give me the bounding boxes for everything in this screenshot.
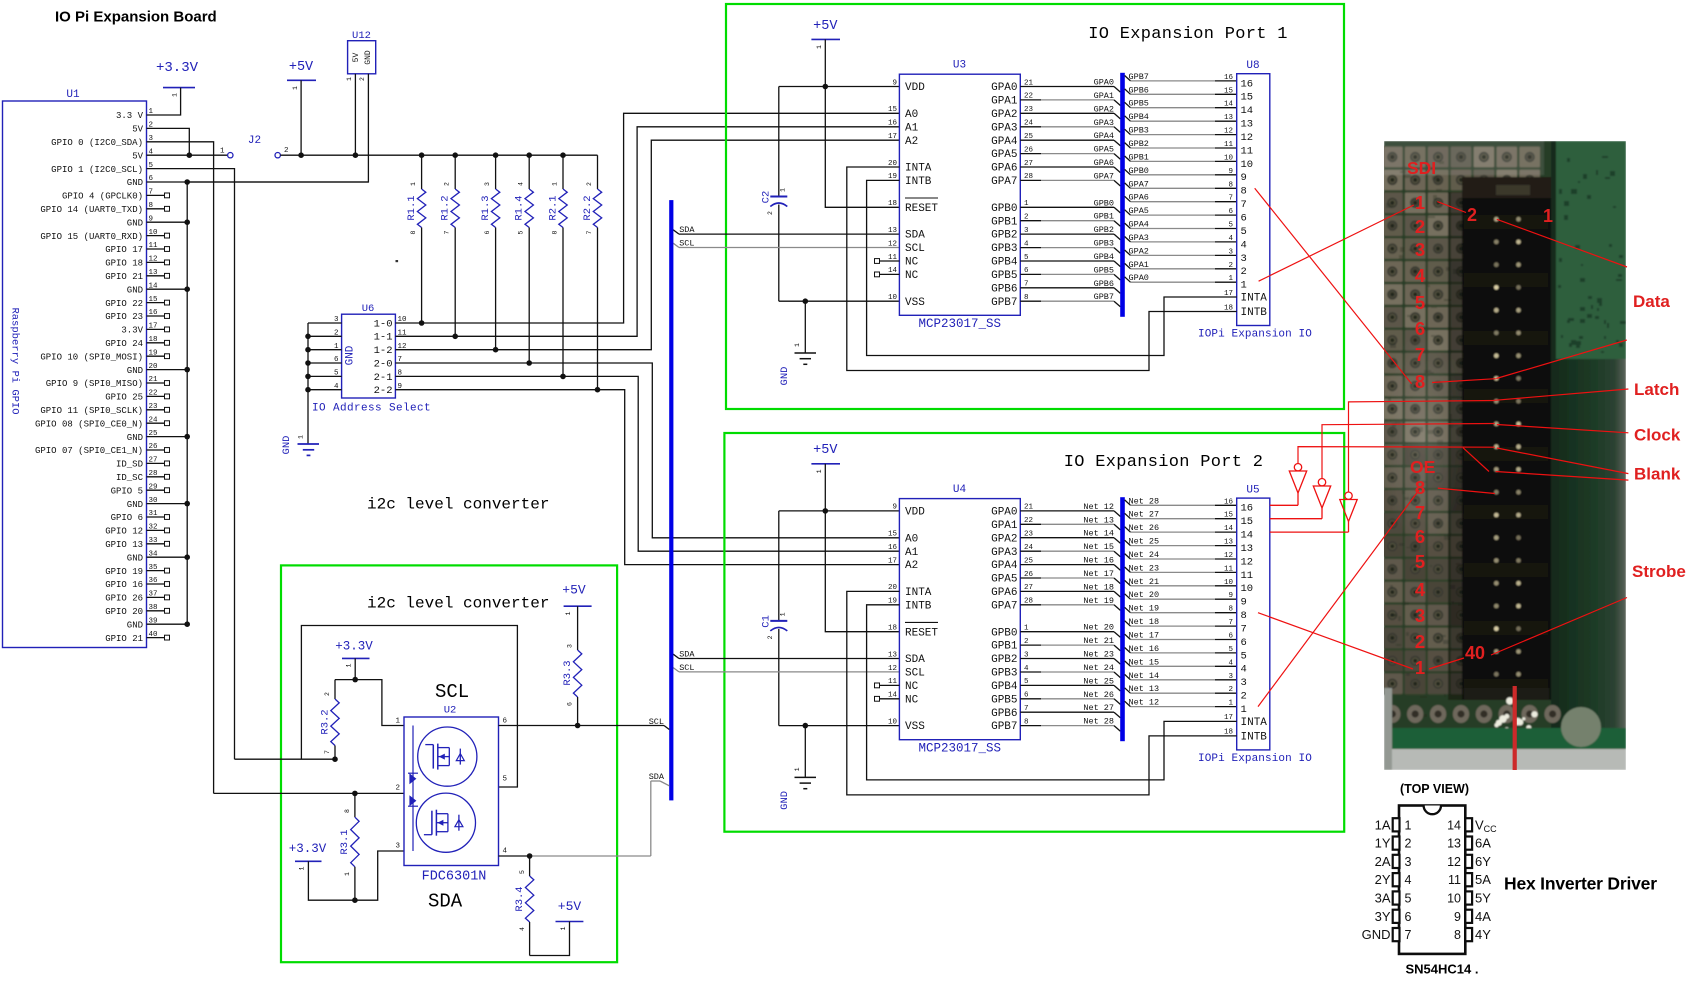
svg-text:GPB0: GPB0 — [991, 627, 1017, 639]
svg-text:2: 2 — [359, 77, 366, 81]
svg-text:U12: U12 — [352, 30, 371, 42]
svg-text:4: 4 — [519, 927, 526, 931]
svg-text:GPIO 6: GPIO 6 — [111, 513, 143, 523]
wire SDA 3.3V side to U2 pin2 — [214, 792, 404, 794]
svg-text:16: 16 — [1241, 78, 1254, 90]
wire SCL (port 2) — [673, 668, 899, 672]
svg-text:9: 9 — [1228, 168, 1233, 176]
svg-text:GPA3: GPA3 — [1129, 233, 1149, 243]
svg-text:5: 5 — [1405, 892, 1412, 906]
+3.3V supply (SCL pullup) — [335, 640, 373, 680]
svg-text:15: 15 — [1241, 92, 1254, 104]
svg-text:3: 3 — [334, 316, 339, 324]
svg-text:8: 8 — [1241, 610, 1247, 622]
svg-text:Strobe: Strobe — [1632, 562, 1686, 581]
svg-text:SDA: SDA — [679, 225, 695, 235]
svg-text:2: 2 — [334, 330, 339, 338]
svg-text:GPIO 25: GPIO 25 — [105, 393, 143, 403]
resistor R2.1 — [548, 155, 568, 376]
svg-text:VDD: VDD — [905, 82, 925, 94]
svg-text:A2: A2 — [905, 136, 918, 148]
svg-text:14: 14 — [1241, 105, 1254, 117]
svg-text:8: 8 — [1228, 181, 1233, 189]
svg-text:GPB4: GPB4 — [1094, 252, 1114, 262]
wire SCL 5V side to bus — [499, 726, 670, 730]
svg-text:OE: OE — [1410, 457, 1435, 477]
wire U6 2-1 address line — [395, 376, 899, 551]
svg-text:GPA6: GPA6 — [991, 163, 1017, 175]
svg-text:GPA3: GPA3 — [1094, 118, 1114, 128]
svg-text:GPIO 1 (I2C0_SCL): GPIO 1 (I2C0_SCL) — [51, 165, 143, 175]
svg-text:ID_SD: ID_SD — [116, 460, 143, 470]
green box IO Expansion Port 1 — [726, 4, 1344, 409]
svg-text:1: 1 — [298, 435, 305, 439]
wire U5 pin15 to inverter (red) — [1270, 518, 1322, 520]
svg-text:GPIO 19: GPIO 19 — [105, 567, 143, 577]
svg-text:NC: NC — [905, 257, 919, 269]
svg-text:15: 15 — [1224, 512, 1234, 520]
svg-text:Net 21: Net 21 — [1129, 577, 1160, 587]
svg-text:SDA: SDA — [905, 654, 925, 666]
wire U1 pin3 SDA vertical — [165, 142, 214, 794]
junction — [575, 723, 581, 729]
ground GND (port 2) — [779, 726, 816, 810]
svg-text:10: 10 — [1241, 583, 1254, 595]
svg-text:GPIO 15 (UART0_RXD): GPIO 15 (UART0_RXD) — [40, 232, 143, 242]
svg-text:INTA: INTA — [1241, 293, 1268, 305]
svg-text:4: 4 — [1415, 579, 1426, 600]
svg-text:GPA4: GPA4 — [991, 560, 1018, 572]
svg-text:Net 19: Net 19 — [1129, 604, 1160, 614]
svg-text:18: 18 — [888, 200, 897, 208]
svg-text:8: 8 — [1415, 371, 1425, 392]
svg-text:8: 8 — [1228, 606, 1233, 614]
svg-text:8: 8 — [410, 230, 417, 234]
svg-text:8: 8 — [344, 809, 351, 813]
svg-text:3Y: 3Y — [1375, 909, 1391, 924]
svg-text:3.3 V: 3.3 V — [116, 111, 144, 121]
svg-text:GND: GND — [127, 218, 143, 228]
svg-text:GPIO 14 (UART0_TXD): GPIO 14 (UART0_TXD) — [40, 205, 143, 215]
svg-text:J2: J2 — [248, 135, 261, 147]
svg-text:GPA4: GPA4 — [991, 136, 1018, 148]
svg-text:4: 4 — [1405, 873, 1412, 887]
svg-text:1: 1 — [299, 866, 306, 870]
svg-text:R3.2: R3.2 — [320, 709, 332, 734]
svg-text:+5V: +5V — [289, 60, 314, 75]
svg-text:Net 23: Net 23 — [1129, 563, 1160, 573]
wires U4 GPA/GPB to bus — [1020, 511, 1120, 731]
svg-text:SCL: SCL — [905, 668, 925, 680]
svg-text:GPA5: GPA5 — [991, 149, 1017, 161]
svg-text:1: 1 — [172, 93, 179, 97]
svg-text:10: 10 — [1224, 579, 1234, 587]
svg-text:7: 7 — [324, 750, 331, 754]
svg-text:1: 1 — [1415, 657, 1425, 678]
wire VDD — [779, 510, 900, 512]
svg-text:7: 7 — [1415, 344, 1425, 365]
svg-text:1: 1 — [1405, 818, 1412, 832]
svg-text:A0: A0 — [905, 533, 918, 545]
svg-text:Blank: Blank — [1634, 465, 1681, 484]
resistor R1.4 — [514, 155, 534, 363]
svg-text:GPB5: GPB5 — [1129, 99, 1149, 109]
wire INTA U4 — [847, 591, 1237, 795]
junction — [823, 508, 829, 514]
svg-text:Net 18: Net 18 — [1083, 582, 1114, 592]
U4 left pin labels — [888, 504, 938, 734]
junction — [823, 84, 829, 90]
svg-text:2: 2 — [767, 211, 774, 215]
svg-text:GND: GND — [1362, 927, 1391, 942]
wire U1 pin1 to +3.3V — [165, 88, 181, 115]
svg-text:INTA: INTA — [905, 163, 932, 175]
svg-text:6: 6 — [1405, 910, 1412, 924]
svg-text:GPIO 11 (SPI0_SCLK): GPIO 11 (SPI0_SCLK) — [40, 406, 143, 416]
resistor R3.3 — [562, 606, 582, 725]
svg-text:6: 6 — [1241, 637, 1247, 649]
svg-text:Net 25: Net 25 — [1083, 676, 1114, 686]
junction — [419, 320, 425, 326]
U6 right pin labels — [374, 316, 407, 397]
svg-text:+3.3V: +3.3V — [289, 842, 327, 856]
svg-text:GPB2: GPB2 — [1094, 225, 1114, 235]
svg-text:3: 3 — [484, 182, 491, 186]
net labels left of bus (port 1) — [1094, 78, 1114, 303]
svg-text:GND: GND — [127, 500, 143, 510]
svg-text:GPIO 21: GPIO 21 — [105, 272, 143, 282]
svg-text:NC: NC — [905, 270, 919, 282]
svg-text:GPB0: GPB0 — [1129, 166, 1149, 176]
U4 right pin labels — [991, 504, 1033, 734]
svg-text:R1.3: R1.3 — [480, 195, 492, 220]
svg-text:5: 5 — [519, 870, 526, 874]
svg-text:Net 20: Net 20 — [1129, 590, 1160, 600]
wire U1 GND bus — [165, 182, 368, 624]
U1 pin stubs and no-connect squares — [147, 115, 170, 640]
svg-text:3: 3 — [395, 843, 400, 851]
svg-text:12: 12 — [1447, 855, 1461, 869]
svg-text:15: 15 — [1224, 87, 1234, 95]
svg-text:GPA1: GPA1 — [991, 96, 1018, 108]
svg-text:1A: 1A — [1375, 817, 1391, 832]
svg-text:INTB: INTB — [905, 176, 932, 188]
U6 left pins — [308, 316, 342, 391]
svg-text:INTA: INTA — [1241, 717, 1268, 729]
+5V supply (R3.4) — [530, 899, 584, 956]
svg-text:C2: C2 — [761, 191, 773, 204]
junction — [527, 853, 533, 859]
wire VSS — [779, 300, 900, 302]
svg-text:Net 12: Net 12 — [1083, 502, 1114, 512]
svg-text:GPA0: GPA0 — [1129, 273, 1149, 283]
junction — [452, 334, 458, 340]
svg-text:1: 1 — [1241, 280, 1247, 292]
svg-text:GPB6: GPB6 — [991, 708, 1017, 720]
svg-text:Net 15: Net 15 — [1129, 657, 1160, 667]
svg-text:9: 9 — [1241, 172, 1247, 184]
+5V supply (port 1) — [811, 19, 840, 49]
svg-text:IO Expansion Port 2: IO Expansion Port 2 — [1064, 453, 1264, 472]
svg-text:U4: U4 — [953, 484, 967, 496]
wire U6 2-2 address line — [395, 390, 899, 565]
svg-text:11: 11 — [1241, 570, 1254, 582]
svg-text:5: 5 — [1228, 222, 1233, 230]
svg-text:GPA4: GPA4 — [1094, 131, 1114, 141]
svg-text:16: 16 — [1224, 74, 1234, 82]
svg-text:11: 11 — [1448, 873, 1461, 887]
svg-text:6: 6 — [1228, 633, 1233, 641]
svg-text:7: 7 — [586, 230, 593, 234]
resistor R1.2 — [440, 155, 460, 336]
wire VSS — [779, 725, 900, 727]
svg-text:GPA7: GPA7 — [1094, 171, 1114, 181]
svg-text:4: 4 — [518, 182, 525, 186]
svg-text:4: 4 — [1228, 235, 1233, 243]
svg-text:1: 1 — [1543, 206, 1553, 226]
svg-text:A1: A1 — [905, 122, 919, 134]
svg-text:INTA: INTA — [905, 587, 932, 599]
svg-text:GPIO 24: GPIO 24 — [105, 339, 143, 349]
inverter 3 input wire (red) — [1349, 401, 1495, 493]
svg-text:GPB5: GPB5 — [991, 694, 1017, 706]
svg-text:+5V: +5V — [562, 583, 586, 598]
svg-text:1: 1 — [816, 469, 823, 473]
wires bus to connector (port 1) — [1125, 76, 1237, 283]
svg-text:R2.2: R2.2 — [582, 195, 594, 220]
svg-text:GPA0: GPA0 — [1094, 78, 1114, 88]
svg-text:2: 2 — [1467, 205, 1477, 225]
wire VDD — [779, 86, 900, 88]
svg-text:1: 1 — [780, 612, 787, 616]
svg-text:GPB6: GPB6 — [1129, 85, 1149, 95]
stray mark — [396, 260, 399, 262]
wire SDA (port 1) — [673, 230, 899, 234]
svg-text:GPB3: GPB3 — [1129, 126, 1149, 136]
svg-text:1: 1 — [395, 718, 400, 726]
svg-text:1-0: 1-0 — [374, 318, 393, 330]
svg-text:1-1: 1-1 — [374, 332, 393, 344]
wire SCL (port 1) — [673, 243, 899, 247]
svg-text:2: 2 — [1405, 837, 1412, 851]
svg-text:GPA1: GPA1 — [991, 520, 1018, 532]
svg-text:GPB5: GPB5 — [1094, 265, 1114, 275]
+3.3V supply (U1 pin1) — [156, 60, 199, 97]
svg-text:GPB2: GPB2 — [991, 230, 1017, 242]
svg-text:GPA6: GPA6 — [991, 587, 1017, 599]
svg-text:GPA1: GPA1 — [1094, 91, 1114, 101]
svg-text:5: 5 — [1241, 226, 1247, 238]
svg-text:GPIO 16: GPIO 16 — [105, 580, 143, 590]
resistor R3.1 — [339, 793, 359, 900]
wire +5V to VDD — [824, 39, 826, 86]
svg-text:2-1: 2-1 — [374, 372, 393, 384]
svg-text:GPIO 5: GPIO 5 — [111, 486, 143, 496]
svg-text:8: 8 — [1454, 928, 1461, 942]
svg-text:16: 16 — [1224, 498, 1234, 506]
svg-text:3: 3 — [1228, 248, 1233, 256]
svg-text:(TOP VIEW): (TOP VIEW) — [1400, 782, 1469, 796]
svg-text:13: 13 — [1241, 543, 1254, 555]
net labels right of bus (port 1) — [1129, 72, 1234, 283]
connector U1 Raspberry Pi GPIO — [3, 101, 147, 648]
svg-text:13: 13 — [888, 227, 898, 235]
svg-text:GPB7: GPB7 — [991, 297, 1017, 309]
svg-text:Net 28: Net 28 — [1129, 496, 1160, 506]
svg-text:Net 17: Net 17 — [1083, 569, 1114, 579]
svg-text:2: 2 — [1228, 262, 1233, 270]
svg-text:R1.1: R1.1 — [406, 195, 418, 220]
svg-text:C1: C1 — [761, 615, 773, 628]
svg-text:SCL: SCL — [679, 238, 694, 248]
svg-text:Net 14: Net 14 — [1083, 529, 1114, 539]
svg-text:6: 6 — [567, 702, 574, 706]
green box IO Expansion Port 2 — [724, 433, 1344, 832]
ground GND (port 1) — [779, 301, 816, 385]
red annotation lines — [1255, 188, 1629, 706]
svg-text:11: 11 — [1224, 141, 1234, 149]
junction — [803, 723, 809, 729]
svg-text:SCL: SCL — [649, 717, 664, 727]
svg-text:A1: A1 — [905, 547, 919, 559]
svg-text:RESET: RESET — [905, 203, 938, 215]
svg-text:GPB7: GPB7 — [1094, 292, 1114, 302]
resistor R2.2 — [582, 155, 602, 390]
svg-text:A0: A0 — [905, 109, 918, 121]
svg-text:Net 25: Net 25 — [1129, 537, 1160, 547]
svg-text:8: 8 — [1415, 477, 1425, 498]
junction — [352, 897, 358, 903]
wire +3.3V node to R3.2 — [335, 679, 355, 681]
svg-text:15: 15 — [1241, 516, 1254, 528]
svg-text:Net 16: Net 16 — [1083, 556, 1114, 566]
IC U3 MCP23017 — [899, 60, 1020, 332]
svg-text:R3.4: R3.4 — [514, 886, 526, 911]
resistor R1.1 — [406, 155, 426, 323]
svg-text:2: 2 — [1415, 216, 1425, 237]
svg-text:2: 2 — [284, 147, 289, 155]
svg-text:Data: Data — [1633, 292, 1670, 311]
svg-text:NC: NC — [905, 694, 919, 706]
svg-text:GPB3: GPB3 — [1094, 239, 1114, 249]
svg-text:Hex Inverter Driver: Hex Inverter Driver — [1504, 874, 1657, 894]
junction — [493, 347, 499, 353]
svg-text:GPA6: GPA6 — [1129, 193, 1149, 203]
svg-text:16: 16 — [888, 120, 898, 128]
wire +5V to VDD — [824, 464, 826, 511]
svg-text:i2c level converter: i2c level converter — [367, 595, 549, 613]
svg-text:GPA5: GPA5 — [1129, 206, 1149, 216]
wire U5 pin14 to inverter (red) — [1270, 531, 1349, 533]
svg-text:13: 13 — [1224, 539, 1234, 547]
junction — [352, 677, 358, 683]
svg-text:3: 3 — [567, 644, 574, 648]
wire U6 1-2 address line — [395, 140, 899, 350]
inverter gate (red) — [1289, 464, 1306, 506]
svg-text:14: 14 — [1224, 525, 1234, 533]
svg-text:R3.1: R3.1 — [339, 829, 351, 854]
svg-text:GPB7: GPB7 — [1129, 72, 1149, 82]
svg-text:9: 9 — [892, 504, 897, 512]
wire U1 pin2 5V — [165, 128, 189, 155]
svg-text:VSS: VSS — [905, 297, 925, 309]
svg-text:12: 12 — [1241, 556, 1254, 568]
svg-text:Net 28: Net 28 — [1083, 717, 1114, 727]
svg-text:6A: 6A — [1475, 836, 1491, 851]
svg-text:1Y: 1Y — [1375, 836, 1391, 851]
svg-text:17: 17 — [888, 133, 897, 141]
U3 NC pin stubs — [875, 259, 900, 277]
svg-text:SCL: SCL — [435, 681, 469, 703]
svg-text:R3.3: R3.3 — [562, 660, 574, 685]
svg-text:GPA2: GPA2 — [991, 533, 1017, 545]
resistor R1.3 — [480, 155, 500, 350]
svg-text:SCL: SCL — [905, 243, 925, 255]
U1 pin labels — [35, 111, 144, 644]
svg-text:14: 14 — [1224, 101, 1234, 109]
svg-text:GND: GND — [127, 433, 143, 443]
svg-text:GPB4: GPB4 — [991, 681, 1018, 693]
svg-text:7: 7 — [1405, 928, 1412, 942]
svg-text:GND: GND — [127, 366, 143, 376]
svg-text:10: 10 — [1224, 154, 1234, 162]
svg-text:Net 12: Net 12 — [1129, 698, 1160, 708]
svg-text:8: 8 — [1241, 186, 1247, 198]
svg-text:Clock: Clock — [1634, 426, 1681, 445]
wire U5 pin16 to inverter (red) — [1270, 504, 1298, 506]
bus SDA/SCL main — [669, 200, 673, 800]
+5V supply (J2) — [287, 60, 316, 90]
svg-text:Net 13: Net 13 — [1083, 515, 1114, 525]
svg-text:SCL: SCL — [679, 663, 694, 673]
svg-text:1: 1 — [565, 611, 572, 615]
svg-text:5V: 5V — [352, 53, 361, 63]
svg-text:1: 1 — [346, 77, 353, 81]
net labels left of bus (port 2) — [1083, 502, 1114, 727]
svg-text:Net 24: Net 24 — [1083, 663, 1114, 673]
U4 NC pin stubs — [875, 683, 900, 701]
svg-text:Net 21: Net 21 — [1083, 636, 1114, 646]
svg-text:2-0: 2-0 — [374, 358, 393, 370]
svg-text:14: 14 — [1241, 530, 1254, 542]
svg-text:INTB: INTB — [1241, 732, 1268, 744]
junction — [560, 374, 566, 380]
U3 left pin labels — [888, 79, 938, 308]
svg-text:R1.2: R1.2 — [440, 195, 452, 220]
svg-text:GPA4: GPA4 — [1129, 220, 1149, 230]
junction — [526, 360, 532, 366]
svg-text:GND: GND — [364, 50, 373, 65]
wire U1 pin4 to J2 pin1 — [165, 154, 227, 156]
svg-text:GPIO 08 (SPI0_CE0_N): GPIO 08 (SPI0_CE0_N) — [35, 419, 143, 429]
svg-text:SDA: SDA — [905, 230, 925, 242]
svg-text:2A: 2A — [1375, 854, 1391, 869]
jumper J2 — [220, 135, 289, 158]
svg-text:MCP23017_SS: MCP23017_SS — [919, 741, 1002, 755]
svg-text:GND: GND — [345, 345, 357, 365]
svg-text:GND: GND — [281, 436, 293, 455]
svg-text:Net 14: Net 14 — [1129, 671, 1160, 681]
svg-text:GPA5: GPA5 — [991, 574, 1017, 586]
capacitor C2 — [761, 87, 788, 302]
svg-text:5: 5 — [1415, 551, 1425, 572]
svg-text:2: 2 — [767, 635, 774, 639]
svg-text:GPB4: GPB4 — [991, 257, 1018, 269]
svg-text:13: 13 — [1447, 837, 1461, 851]
svg-text:Net 26: Net 26 — [1129, 523, 1160, 533]
svg-text:18: 18 — [888, 625, 897, 633]
svg-text:GPIO 0 (I2C0_SDA): GPIO 0 (I2C0_SDA) — [51, 138, 143, 148]
